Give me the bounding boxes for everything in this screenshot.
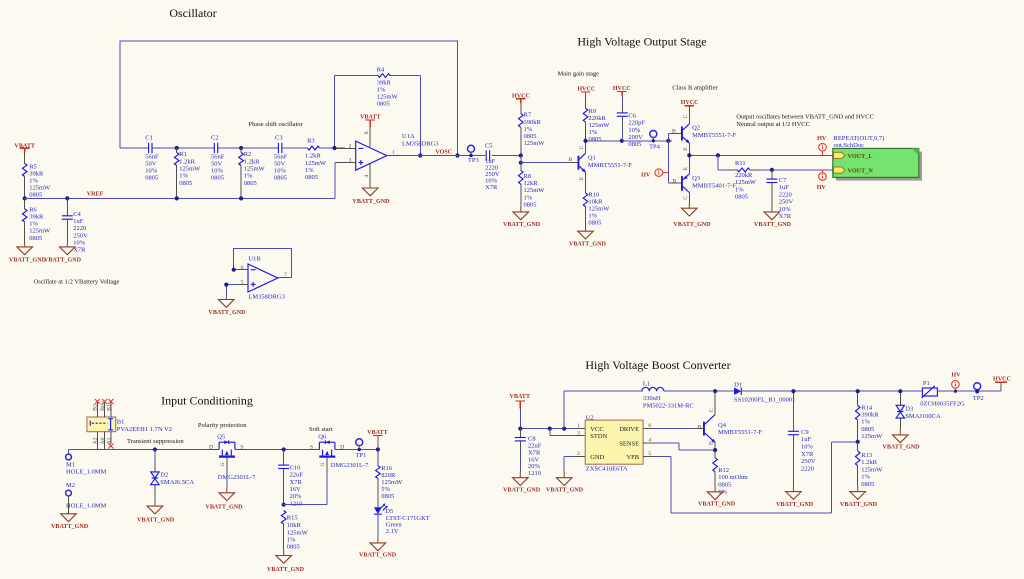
svg-text:1%: 1% [305, 167, 314, 174]
svg-text:125mW: 125mW [589, 122, 611, 129]
svg-text:R10: R10 [588, 191, 599, 198]
wire base Q1 [521, 162, 578, 164]
resistor R3 [305, 137, 327, 181]
port HV (VOUT_N) [817, 170, 827, 191]
svg-text:M2: M2 [66, 482, 75, 489]
annotation transient suppression [127, 438, 184, 445]
svg-text:VOSC: VOSC [435, 150, 452, 156]
svg-text:2: 2 [577, 451, 580, 457]
svg-text:220pF: 220pF [628, 120, 645, 127]
svg-text:C: C [709, 408, 715, 412]
svg-text:VBATT_GND: VBATT_GND [44, 257, 82, 263]
ground VBATT_GND (C4) [44, 244, 82, 264]
svg-text:56nF: 56nF [145, 154, 159, 161]
svg-text:TP1: TP1 [356, 452, 367, 459]
svg-text:X7R: X7R [801, 451, 814, 458]
svg-text:0805: 0805 [244, 180, 257, 187]
svg-text:HV: HV [817, 136, 827, 142]
sheet entry VOUT_L [834, 152, 873, 160]
svg-text:SMAJ6.5CA: SMAJ6.5CA [160, 479, 194, 486]
wire main input row [69, 449, 220, 451]
sheet entry VOUT_N [834, 167, 874, 175]
svg-text:P1: P1 [923, 380, 930, 387]
ground VBATT_GND (M2) [51, 514, 89, 530]
svg-text:1.2kR: 1.2kR [179, 158, 195, 165]
capacitor C2 [211, 134, 225, 181]
svg-text:R12: R12 [718, 467, 729, 474]
svg-text:VBATT_GND: VBATT_GND [673, 222, 711, 228]
svg-text:0805: 0805 [145, 175, 158, 182]
resistor R5 [22, 153, 51, 199]
svg-text:4: 4 [364, 175, 370, 178]
svg-text:10%: 10% [145, 168, 158, 175]
resistor R12 [713, 450, 748, 495]
wire output VOSC row [402, 155, 521, 157]
svg-text:1%: 1% [588, 213, 597, 220]
svg-text:820R: 820R [381, 472, 396, 479]
capacitor C10 [278, 447, 303, 507]
svg-text:3: 3 [349, 157, 352, 163]
svg-text:125mW: 125mW [588, 206, 610, 213]
svg-text:2220: 2220 [779, 192, 792, 199]
svg-text:Q5: Q5 [217, 434, 225, 441]
svg-text:B: B [698, 424, 702, 430]
svg-text:TP4: TP4 [649, 144, 661, 151]
svg-text:C2: C2 [211, 134, 219, 141]
annotation polarity protection [198, 422, 247, 429]
svg-text:C4: C4 [73, 211, 81, 218]
svg-text:1%: 1% [377, 87, 386, 94]
svg-text:0805: 0805 [524, 201, 537, 208]
svg-text:HV: HV [641, 173, 651, 179]
node feedback junction [856, 440, 860, 444]
svg-text:LM358DRG3: LM358DRG3 [402, 140, 438, 147]
svg-text:0805: 0805 [274, 175, 287, 182]
svg-text:330uH: 330uH [643, 395, 661, 402]
svg-text:TP3: TP3 [468, 157, 479, 164]
svg-text:SMAJ100CA: SMAJ100CA [905, 413, 941, 420]
svg-text:125mW: 125mW [29, 228, 51, 235]
svg-text:12kR: 12kR [524, 180, 539, 187]
svg-text:Phase shift oscillator: Phase shift oscillator [249, 121, 304, 128]
net label VREF [87, 192, 104, 198]
annotation class B amplifier [672, 85, 718, 92]
test point TP2 [973, 383, 984, 402]
svg-text:SENSE: SENSE [619, 441, 639, 448]
svg-text:0805: 0805 [861, 426, 874, 433]
svg-text:C3: C3 [275, 134, 283, 141]
svg-text:DMG2301L-7: DMG2301L-7 [331, 462, 369, 469]
svg-text:VREF: VREF [87, 192, 104, 198]
svg-text:C: C [683, 114, 689, 118]
svg-text:U1A: U1A [402, 133, 415, 140]
svg-text:390kR: 390kR [861, 412, 879, 419]
svg-text:B: B [672, 129, 676, 135]
svg-text:E: E [709, 441, 715, 445]
wire riser to inductor [563, 391, 565, 428]
svg-text:C9: C9 [801, 429, 809, 436]
wire output row VOUT_L [687, 153, 833, 157]
tvs diode D2 SMAJ6.5CA [151, 447, 195, 502]
wire Q6 drain to VBATT node [335, 449, 378, 451]
svg-text:HV: HV [817, 185, 827, 191]
svg-text:0805: 0805 [381, 493, 394, 500]
ground VBATT_GND (U1A pin4) [352, 186, 390, 205]
svg-text:ZXSC410E6TA: ZXSC410E6TA [586, 465, 628, 472]
svg-text:125mW: 125mW [861, 466, 883, 473]
svg-text:D: D [209, 445, 213, 451]
svg-text:50V: 50V [211, 161, 223, 168]
svg-text:R1: R1 [179, 151, 187, 158]
svg-text:PVA2EEH1 1.7N V2: PVA2EEH1 1.7N V2 [117, 426, 172, 433]
svg-text:B1: B1 [106, 404, 112, 411]
svg-text:0805: 0805 [735, 194, 748, 201]
svg-text:2: 2 [349, 143, 352, 149]
svg-text:Output oscillates between VBAT: Output oscillates between VBATT_GND and … [736, 114, 874, 121]
svg-text:VBATT_GND: VBATT_GND [776, 502, 814, 508]
power port HVCC (boost output) [993, 377, 1011, 392]
svg-text:10%: 10% [274, 168, 287, 175]
svg-text:2220: 2220 [73, 225, 86, 232]
svg-text:B: B [672, 179, 676, 185]
resistor R2 [239, 148, 266, 200]
svg-text:VBATT_GND: VBATT_GND [569, 242, 607, 248]
battery B1 PVA2EEH1 [87, 403, 172, 450]
wire SENSE [643, 443, 715, 450]
svg-text:DRIVE: DRIVE [619, 426, 639, 433]
node C10 R15 junction [282, 503, 286, 507]
svg-text:125mW: 125mW [524, 187, 546, 194]
svg-text:250V: 250V [779, 199, 794, 206]
port HV (base bus) [641, 169, 668, 179]
wire op-amp feedback loop (R4) [335, 76, 421, 156]
capacitor C7 [766, 170, 793, 220]
ground VBATT_GND (D5) [359, 514, 397, 558]
svg-text:Q1: Q1 [588, 155, 596, 162]
svg-text:R16: R16 [381, 465, 393, 472]
svg-text:B1: B1 [117, 419, 125, 426]
svg-text:VBATT_GND: VBATT_GND [267, 567, 305, 573]
resistor R11 [735, 160, 757, 201]
svg-text:0805: 0805 [211, 175, 224, 182]
svg-text:10%: 10% [801, 444, 814, 451]
svg-text:250V: 250V [801, 458, 816, 465]
svg-text:B2: B2 [93, 404, 99, 411]
svg-text:R14: R14 [861, 404, 873, 411]
ground VBATT_GND (R15) [267, 550, 305, 573]
svg-text:U2: U2 [586, 414, 594, 421]
diode D1 SS10200FL [713, 381, 922, 403]
capacitor C5 [485, 143, 500, 191]
transistor Q4 MMBT5551-7-F [698, 391, 763, 450]
svg-text:56nF: 56nF [211, 154, 225, 161]
svg-text:0805: 0805 [588, 220, 601, 227]
svg-text:1%: 1% [524, 194, 533, 201]
svg-text:Polarity protection: Polarity protection [198, 422, 247, 429]
svg-text:125mW: 125mW [377, 94, 399, 101]
svg-text:1%: 1% [244, 173, 253, 180]
svg-text:125mW: 125mW [524, 140, 546, 147]
wire collector row [583, 139, 672, 143]
svg-text:0805: 0805 [305, 174, 318, 181]
ic U2 ZXSC410E6TA [577, 414, 651, 472]
mosfet Q6 DMG2301L-7 [310, 434, 369, 473]
resistor R9 [583, 97, 610, 144]
svg-text:VBATT_GND: VBATT_GND [359, 553, 397, 559]
svg-text:R5: R5 [29, 163, 37, 170]
svg-text:X7R: X7R [485, 184, 498, 191]
power port HVCC (Q2) [681, 100, 699, 107]
svg-text:0805: 0805 [861, 481, 874, 488]
ground VBATT_GND (D3) [882, 435, 920, 451]
svg-text:Q3: Q3 [692, 175, 700, 182]
svg-text:2220: 2220 [801, 466, 814, 473]
svg-text:10%: 10% [628, 127, 641, 134]
svg-text:125mW: 125mW [179, 166, 201, 173]
svg-text:VBATT_GND: VBATT_GND [698, 502, 736, 508]
svg-text:A2: A2 [93, 437, 99, 444]
polyfuse P1 0ZCH0035FF2G [920, 380, 1001, 408]
svg-text:REPEAT(OUT,0,7): REPEAT(OUT,0,7) [834, 135, 885, 142]
test point TP1 [356, 439, 367, 459]
svg-text:1.2kR: 1.2kR [244, 158, 260, 165]
svg-text:STDN: STDN [590, 433, 607, 440]
svg-text:X7R: X7R [290, 479, 303, 486]
capacitor C4 [62, 196, 88, 253]
svg-text:390kR: 390kR [524, 119, 542, 126]
svg-text:D2: D2 [160, 472, 168, 479]
svg-text:R3: R3 [307, 137, 315, 144]
svg-text:R9: R9 [589, 108, 597, 115]
power port VBATT (U1A pin8) [360, 115, 381, 128]
svg-text:VCC: VCC [590, 426, 603, 433]
svg-text:LM358DRG3: LM358DRG3 [248, 294, 284, 301]
svg-text:VBATT_GND: VBATT_GND [51, 524, 89, 530]
mounting hole M2 [66, 482, 107, 514]
svg-text:125mW: 125mW [29, 184, 51, 191]
svg-text:200V: 200V [628, 134, 643, 141]
svg-text:R8: R8 [524, 173, 532, 180]
svg-text:0805: 0805 [628, 141, 641, 148]
svg-text:HVCC: HVCC [681, 100, 699, 106]
svg-text:100 mOhm: 100 mOhm [718, 474, 747, 481]
svg-text:0805: 0805 [377, 101, 390, 108]
svg-text:1%: 1% [287, 537, 296, 544]
svg-text:VBATT_GND: VBATT_GND [503, 222, 541, 228]
svg-text:1%: 1% [524, 126, 533, 133]
svg-text:1%: 1% [29, 177, 38, 184]
svg-text:10%: 10% [73, 239, 86, 246]
svg-text:1uF: 1uF [779, 184, 790, 191]
no-connect X mark B1 A1 [108, 444, 113, 449]
svg-text:DMG2301L-7: DMG2301L-7 [218, 474, 256, 481]
annotation soft start [309, 426, 333, 433]
mounting hole M1 [66, 450, 107, 476]
svg-text:VBATT_GND: VBATT_GND [205, 505, 243, 511]
ground VBATT_GND (C7) [754, 206, 792, 228]
svg-text:1%: 1% [861, 419, 870, 426]
svg-text:Soft start: Soft start [309, 426, 333, 433]
svg-text:L1: L1 [643, 380, 650, 387]
svg-text:0805: 0805 [29, 191, 42, 198]
wire Q5 to Q6 [235, 449, 320, 451]
power port VBATT (left divider) [14, 143, 35, 152]
svg-text:0ZCH0035FF2G: 0ZCH0035FF2G [920, 401, 965, 408]
svg-text:C8: C8 [528, 436, 536, 443]
svg-text:C: C [579, 145, 585, 149]
power port HVCC (R7) [512, 94, 530, 103]
svg-text:1uF: 1uF [73, 218, 84, 225]
op-amp U1A [335, 127, 439, 198]
svg-text:PM5022-331M-RC: PM5022-331M-RC [643, 403, 694, 410]
svg-text:High Voltage Boost Converter: High Voltage Boost Converter [585, 358, 730, 372]
svg-text:G: G [320, 462, 326, 466]
wire DRIVE to Q4 base [643, 428, 703, 430]
resistor R10 [583, 191, 610, 226]
power port VBATT (input) [367, 430, 388, 452]
svg-text:Input Conditioning: Input Conditioning [161, 394, 253, 408]
node junction dots oscillator row [175, 146, 460, 158]
svg-text:1: 1 [392, 149, 395, 155]
svg-text:C: C [683, 196, 689, 200]
capacitor C8 [515, 429, 542, 477]
svg-text:10kR: 10kR [287, 522, 302, 529]
ground VBATT_GND (R8) [503, 206, 541, 228]
svg-text:220kR: 220kR [735, 172, 753, 179]
svg-text:D3: D3 [905, 406, 913, 413]
svg-text:5%: 5% [381, 486, 390, 493]
svg-text:16V: 16V [290, 486, 302, 493]
ground VBATT_GND (Q3) [673, 204, 711, 228]
resistor R14 [855, 389, 883, 442]
net label VOSC [435, 150, 452, 156]
ground VBATT_GND (Q5 gate) [205, 472, 243, 511]
annotation phase shift oscillator [249, 121, 304, 128]
capacitor C9 [788, 389, 816, 485]
resistor R4 [377, 67, 399, 108]
ground VBATT_GND (R6) [9, 244, 47, 264]
svg-text:6: 6 [241, 265, 244, 271]
svg-text:HVCC: HVCC [993, 377, 1011, 383]
sheet symbol REPEAT(OUT,0,7) out.SchDoc [833, 135, 922, 181]
svg-text:Class B amplifier: Class B amplifier [672, 85, 718, 92]
svg-text:1%: 1% [735, 187, 744, 194]
svg-text:R15: R15 [287, 515, 298, 522]
resistor R1 [174, 148, 201, 200]
capacitor C1 [145, 134, 159, 181]
svg-text:220kR: 220kR [589, 115, 607, 122]
annotation main gain stage [558, 71, 600, 78]
svg-text:HOLE_1.0MM: HOLE_1.0MM [66, 502, 106, 509]
transistor Q1 MMBT5551-7-F [568, 141, 632, 193]
svg-text:125mW: 125mW [381, 479, 403, 486]
ground VBATT_GND (R12) [698, 485, 736, 508]
svg-text:VBATT_GND: VBATT_GND [882, 445, 920, 451]
svg-text:1.2kR: 1.2kR [861, 459, 877, 466]
svg-text:HOLE_1.0MM: HOLE_1.0MM [66, 469, 106, 476]
svg-text:High Voltage Output Stage: High Voltage Output Stage [577, 35, 706, 49]
wire output row VOUT_N [718, 155, 833, 172]
svg-text:125mW: 125mW [735, 179, 757, 186]
wire VREF row [25, 197, 335, 199]
mosfet Q5 DMG2301L-7 [209, 434, 256, 481]
inductor L1 [564, 380, 715, 409]
svg-text:10kR: 10kR [588, 198, 603, 205]
node divider junctions [519, 153, 523, 164]
svg-text:R6: R6 [29, 206, 37, 213]
svg-text:R7: R7 [524, 112, 532, 119]
svg-text:VBATT_GND: VBATT_GND [840, 502, 878, 508]
wire base bus Q2 Q3 [668, 134, 681, 184]
svg-text:VBATT_GND: VBATT_GND [503, 488, 541, 494]
annotation output oscillates [736, 114, 874, 128]
svg-text:VBATT_GND: VBATT_GND [546, 488, 584, 494]
svg-text:56nF: 56nF [274, 154, 288, 161]
svg-text:Main gain stage: Main gain stage [558, 71, 600, 78]
node Q4 emitter junction [713, 448, 717, 452]
svg-text:C7: C7 [779, 177, 787, 184]
svg-text:VBATT_GND: VBATT_GND [137, 518, 175, 524]
svg-text:R4: R4 [377, 67, 385, 74]
svg-text:39kR: 39kR [29, 170, 44, 177]
resistor R8 [519, 163, 546, 209]
svg-text:20%: 20% [290, 493, 303, 500]
svg-text:A0: A0 [100, 437, 106, 444]
svg-text:R2: R2 [244, 151, 252, 158]
svg-text:R11: R11 [735, 160, 746, 167]
svg-text:0805: 0805 [179, 180, 192, 187]
svg-text:S: S [310, 445, 313, 451]
transistor Q3 MMBT5401-7-F [672, 155, 736, 203]
ground VBATT_GND (R10) [569, 225, 607, 248]
svg-text:A1: A1 [106, 437, 112, 444]
svg-text:1%: 1% [861, 474, 870, 481]
svg-text:VBATT_GND: VBATT_GND [754, 222, 792, 228]
wire feedback outer loop [120, 41, 458, 156]
svg-text:MMBT5551-7-F: MMBT5551-7-F [588, 162, 632, 169]
svg-text:Q6: Q6 [318, 434, 327, 441]
svg-text:VBATT_GND: VBATT_GND [208, 310, 246, 316]
svg-text:G: G [220, 462, 226, 466]
svg-text:out.SchDoc: out.SchDoc [834, 142, 865, 149]
resistor R15 [281, 511, 308, 551]
test point TP3 [468, 145, 479, 164]
svg-text:3: 3 [577, 431, 580, 437]
svg-text:GND: GND [590, 454, 604, 461]
svg-text:0805: 0805 [718, 481, 731, 488]
resistor R7 [519, 103, 546, 156]
svg-text:C5: C5 [485, 143, 493, 150]
svg-text:39kR: 39kR [29, 213, 44, 220]
svg-text:B: B [568, 157, 572, 163]
svg-text:22uF: 22uF [528, 443, 542, 450]
svg-text:D1: D1 [734, 381, 742, 388]
wire Q6 gate to soft-start node [284, 472, 327, 505]
ground VBATT_GND (R13) [840, 485, 878, 508]
svg-text:MMBT5401-7-F: MMBT5401-7-F [692, 182, 736, 189]
wire STDN [550, 429, 585, 436]
svg-text:C1: C1 [145, 134, 153, 141]
test point TP4 [649, 131, 661, 151]
svg-text:22uF: 22uF [290, 472, 304, 479]
svg-text:250V: 250V [73, 232, 88, 239]
no-connect X marks B1 top [95, 399, 114, 404]
wire signal row segments [120, 147, 345, 149]
svg-text:MMBT5551-7-F: MMBT5551-7-F [692, 132, 736, 139]
svg-text:E: E [683, 166, 689, 170]
svg-text:Transient suppression: Transient suppression [127, 438, 184, 445]
svg-text:0805: 0805 [287, 544, 300, 551]
